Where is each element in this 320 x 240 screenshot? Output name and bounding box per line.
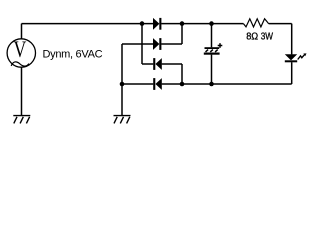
wire source bottom lead [21, 67, 23, 115]
LED D5 triangle and bar [285, 54, 297, 62]
wire capacitor top lead [211, 24, 213, 48]
wire row3 right [162, 63, 182, 65]
wire row4 left [122, 83, 153, 85]
wire node G vertical [121, 44, 123, 115]
wire row2 right [161, 43, 182, 45]
diode D4 [153, 78, 162, 90]
wire bottom rail [162, 83, 292, 85]
svg-text:Dynm, 6VAC: Dynm, 6VAC [43, 49, 103, 61]
ground GND1 (source) [13, 116, 30, 124]
wire LED top lead [291, 24, 293, 55]
wire right bridge vertical top [181, 24, 183, 44]
wire right bridge vertical bottom [181, 64, 183, 84]
resistor R1 zigzag [243, 19, 268, 27]
wire row3 left [142, 63, 153, 65]
capacitor C1 hatch [206, 50, 218, 52]
wire node X vertical [141, 24, 143, 64]
wire top rail left segment [22, 23, 154, 25]
wire LED bottom lead [291, 62, 293, 84]
LED D5 arrowhead [303, 53, 306, 56]
wire row2 left [122, 43, 153, 45]
diode D1 [153, 18, 161, 30]
capacitor C1 plus sign [218, 43, 223, 48]
svg-text:8Ω: 8Ω [246, 31, 258, 42]
diode D2 [153, 38, 161, 50]
node junction dot (182,24) [180, 21, 185, 26]
wire source top lead [21, 24, 23, 40]
wire top rail right segment [269, 23, 292, 25]
node junction dot (142,24) [140, 21, 145, 26]
capacitor C1 plates [204, 47, 220, 55]
node junction dot (182,84) [180, 82, 185, 87]
diode D3 [153, 58, 162, 70]
node junction dot (122,84) [120, 82, 125, 87]
node junction dot (212,84) [209, 82, 214, 87]
svg-text:V: V [14, 38, 27, 63]
wire capacitor bottom lead [211, 55, 213, 84]
voltage source V1 circle [7, 39, 35, 67]
node junction dot (212,24) [209, 21, 214, 26]
wire top rail middle segment [161, 23, 243, 25]
voltage source sine wave [11, 62, 29, 66]
ground GND2 (bridge) [114, 116, 131, 124]
LED D5 emission arrows [298, 55, 305, 60]
svg-text:3W: 3W [261, 31, 274, 42]
